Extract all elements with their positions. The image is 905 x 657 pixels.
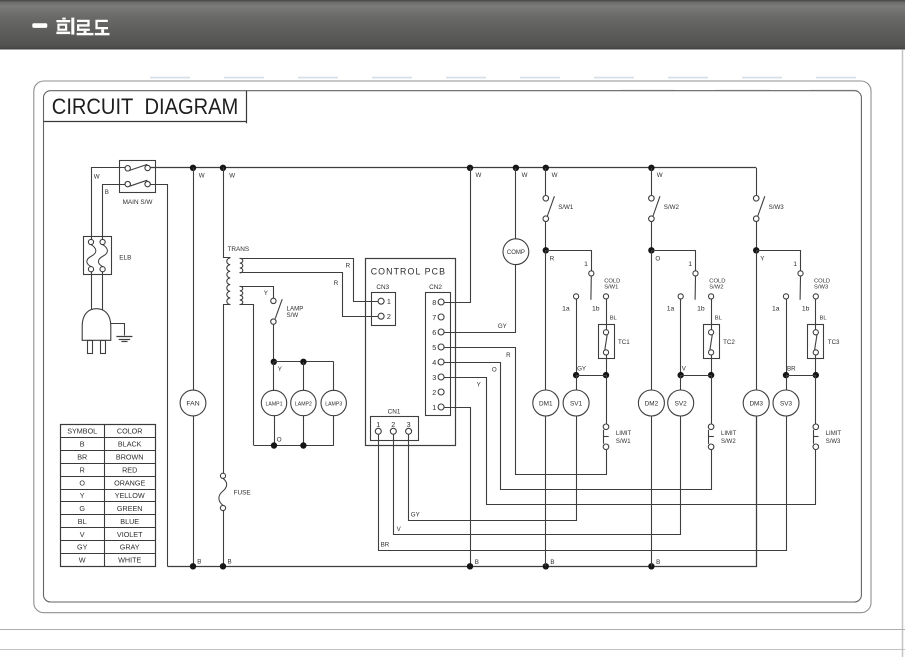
wire: node to LIMIT S/W2	[711, 375, 713, 424]
node: W at S/W2	[648, 165, 654, 171]
svg-text:BR: BR	[77, 453, 87, 462]
switch LIMIT S/W1	[603, 424, 631, 450]
wire: S/W3 to node	[756, 222, 758, 251]
connector pin CN2-7	[438, 314, 444, 320]
switch COLD S/W1 selector	[562, 261, 620, 313]
svg-text:S/W1: S/W1	[616, 439, 631, 445]
svg-text:O: O	[655, 255, 660, 262]
wire Y: secondary to lamp switch	[240, 287, 274, 299]
wire: node to cold switch common 2	[652, 251, 696, 271]
node B at fuse	[220, 563, 226, 569]
svg-text:B: B	[550, 559, 554, 566]
node: W at CN2 pin8 riser	[467, 165, 473, 171]
switch S/W3	[753, 168, 784, 222]
svg-text:Y: Y	[760, 255, 764, 262]
svg-text:4: 4	[432, 358, 436, 367]
svg-text:FAN: FAN	[186, 401, 199, 408]
svg-text:WHITE: WHITE	[118, 556, 141, 565]
wire R: CN2 pin5 to limit switch 1	[445, 348, 607, 475]
fuse FUSE	[219, 473, 251, 510]
svg-text:ELB: ELB	[119, 255, 131, 262]
svg-text:3: 3	[407, 420, 411, 429]
svg-text:CN3: CN3	[376, 284, 389, 291]
svg-text:TRANS: TRANS	[228, 246, 250, 253]
wire: DM3 to B bus	[756, 416, 758, 566]
outer rounded border frame	[34, 81, 871, 613]
svg-text:B: B	[475, 559, 479, 566]
svg-text:1b: 1b	[592, 305, 600, 312]
wire B: bottom black bus	[168, 416, 757, 567]
svg-text:S/W2: S/W2	[664, 204, 680, 211]
svg-text:RED: RED	[122, 465, 137, 474]
svg-text:R: R	[550, 255, 555, 262]
wire BR: CN1 pin1 to SV3	[379, 416, 787, 551]
faint blue artifact dashes above border	[150, 77, 858, 79]
svg-text:2: 2	[387, 312, 391, 321]
node B at DM1	[543, 563, 549, 569]
thermostat TC3	[808, 325, 841, 359]
svg-text:LIMIT: LIMIT	[616, 431, 632, 437]
svg-text:CIRCUIT DIAGRAM: CIRCUIT DIAGRAM	[52, 94, 239, 119]
transformer TRANS primary coil	[227, 258, 230, 305]
svg-text:GY: GY	[498, 323, 507, 330]
motor COMP compressor	[503, 239, 529, 265]
svg-text:LIMIT: LIMIT	[826, 431, 842, 437]
wire O: CN2 pin4 to limit switch 2	[445, 363, 712, 490]
svg-text:R: R	[346, 262, 351, 269]
svg-text:BL: BL	[78, 517, 87, 526]
thermostat TC1	[599, 325, 631, 359]
svg-text:SV3: SV3	[780, 401, 793, 408]
wire: ELB to plug	[91, 272, 93, 314]
wire: contact 1a to SV2	[680, 299, 682, 375]
svg-text:W: W	[522, 172, 528, 179]
svg-text:DM2: DM2	[645, 401, 659, 408]
header bar	[0, 0, 905, 49]
svg-text:Y: Y	[264, 290, 268, 297]
svg-text:W: W	[657, 172, 663, 179]
node V at SV2/TC2	[678, 372, 684, 378]
wire R: secondary to CN3 pin1	[240, 259, 379, 302]
svg-text:BR: BR	[787, 366, 796, 373]
node Y lamp bus	[271, 359, 277, 365]
svg-text:Y: Y	[278, 366, 282, 373]
wire: fuse to B bus	[223, 511, 225, 567]
node: W at TRANS	[220, 165, 226, 171]
wire: contact 1a to SV1	[576, 299, 578, 375]
svg-text:2: 2	[391, 420, 395, 429]
wire: lamp returns	[274, 416, 276, 446]
svg-text:O: O	[79, 478, 85, 487]
wire: node to SV2	[680, 375, 682, 390]
svg-text:GY: GY	[577, 366, 586, 373]
lamp LAMP3	[321, 390, 346, 415]
wire: node to SV1	[576, 375, 578, 390]
svg-text:LIMIT: LIMIT	[721, 431, 737, 437]
node B at CN2 pin1 drop	[467, 563, 473, 569]
svg-text:1: 1	[688, 261, 692, 268]
svg-text:GREEN: GREEN	[117, 504, 143, 513]
node: W at S/W1	[543, 165, 549, 171]
svg-text:BR: BR	[381, 542, 390, 549]
svg-text:B: B	[228, 559, 232, 566]
wire: TC1 to limit switch node	[606, 355, 608, 375]
wire: W from main switch to ELB	[92, 168, 126, 240]
node: W at FAN	[190, 165, 196, 171]
valve SV1 solenoid	[563, 390, 589, 416]
svg-text:B: B	[80, 440, 85, 449]
svg-text:GRAY: GRAY	[120, 543, 140, 552]
motor DM1 damper	[545, 250, 547, 390]
svg-text:LAMP3: LAMP3	[325, 401, 342, 407]
svg-text:W: W	[79, 556, 86, 565]
node Y below S/W3	[753, 247, 759, 253]
wire: node to LIMIT S/W3	[815, 375, 817, 424]
wire: W bus to fan	[193, 168, 195, 390]
svg-text:1a: 1a	[772, 305, 780, 312]
ground symbol	[111, 324, 133, 342]
svg-text:MAIN S/W: MAIN S/W	[123, 199, 154, 206]
svg-text:GY: GY	[77, 543, 88, 552]
svg-text:1: 1	[793, 261, 797, 268]
svg-text:S/W3: S/W3	[769, 204, 785, 211]
switch S/W2	[649, 168, 680, 222]
wire: top W bus	[150, 167, 756, 169]
svg-text:S/W1: S/W1	[604, 285, 618, 291]
motor DM2 damper	[651, 250, 653, 390]
svg-text:BLACK: BLACK	[118, 440, 142, 449]
svg-text:1: 1	[584, 261, 588, 268]
wire: S/W1 to node	[545, 222, 547, 251]
connector pin CN2-5	[438, 344, 444, 350]
svg-text:1b: 1b	[802, 305, 810, 312]
valve SV2 solenoid	[668, 390, 694, 416]
wire: TC3 to limit switch node	[815, 355, 817, 375]
svg-text:B: B	[105, 189, 109, 196]
svg-text:YELLOW: YELLOW	[115, 491, 145, 500]
svg-text:S/W2: S/W2	[721, 439, 736, 445]
wire: node to cold switch common 1	[546, 251, 592, 271]
svg-text:R: R	[80, 465, 85, 474]
connector pin CN2-6	[438, 329, 444, 335]
connector CN1	[371, 408, 419, 440]
wire: S/W2 to node	[651, 222, 653, 251]
title box CIRCUIT DIAGRAM	[44, 121, 247, 123]
svg-text:Y: Y	[477, 382, 481, 389]
svg-text:CONTROL PCB: CONTROL PCB	[371, 267, 446, 277]
node B at DM2	[648, 563, 654, 569]
svg-text:CN2: CN2	[429, 284, 442, 291]
svg-text:8: 8	[432, 298, 436, 307]
transformer TRANS secondary upper coil	[240, 258, 243, 273]
wire: DM2 to B bus	[651, 416, 653, 566]
wire: lamp feeds	[273, 362, 275, 391]
node GY at SV1/TC1	[573, 372, 579, 378]
connector pin CN2-3	[438, 374, 444, 380]
switch COLD S/W2 selector	[667, 261, 726, 313]
node B at fan	[190, 563, 196, 569]
wire: W bus to transformer primary	[224, 168, 231, 258]
connector CN3	[372, 284, 396, 326]
svg-text:5: 5	[432, 343, 436, 352]
svg-text:2: 2	[432, 388, 436, 397]
svg-text:B: B	[197, 559, 201, 566]
svg-text:BL: BL	[820, 316, 828, 322]
svg-text:W: W	[199, 173, 205, 180]
lamp LAMP1	[261, 390, 286, 415]
wire Y: CN2 pin3 to limit switch 3	[445, 378, 816, 505]
svg-text:W: W	[229, 173, 235, 180]
wire: secondary return to lamp bottoms	[240, 305, 254, 446]
svg-text:S/W1: S/W1	[558, 204, 574, 211]
svg-text:Y: Y	[80, 491, 85, 500]
svg-text:BL: BL	[715, 316, 723, 322]
wire: DM1 to B bus	[545, 416, 547, 566]
motor FAN	[180, 390, 206, 416]
control board CONTROL PCB	[366, 259, 456, 446]
switch LAMP S/W	[271, 298, 304, 324]
wire BL: contact 1b to TC3	[815, 299, 817, 330]
wire: black return from main switch to bottom bus	[151, 185, 168, 567]
wire: CN2 pin8 riser to W bus	[445, 168, 471, 303]
wire: B from main switch down	[103, 185, 126, 240]
svg-text:1b: 1b	[697, 305, 705, 312]
svg-text:W: W	[552, 172, 558, 179]
svg-text:TC1: TC1	[618, 339, 630, 346]
thermostat TC2	[704, 325, 736, 359]
wire: node to SV3	[786, 375, 788, 390]
svg-text:O: O	[492, 366, 497, 373]
switch LIMIT S/W2	[708, 424, 736, 450]
switch COLD S/W3 selector	[772, 261, 830, 313]
wire BL: contact 1b to TC2	[711, 299, 713, 330]
svg-text:1: 1	[387, 297, 391, 306]
wire O: lamp return bus	[254, 445, 334, 447]
power plug	[82, 309, 111, 354]
svg-text:W: W	[94, 174, 100, 181]
svg-text:GY: GY	[411, 512, 420, 519]
svg-text:BROWN: BROWN	[116, 453, 144, 462]
connector pin CN2-1	[438, 404, 444, 410]
page bottom divider lines	[0, 629, 905, 631]
svg-text:1: 1	[376, 420, 380, 429]
svg-text:CN1: CN1	[388, 408, 401, 415]
svg-text:DM1: DM1	[539, 401, 553, 408]
svg-text:S/W3: S/W3	[814, 285, 828, 291]
wire GY: compressor to CN2 pin6	[445, 265, 516, 333]
node O below S/W2	[648, 247, 654, 253]
svg-text:SV1: SV1	[570, 401, 583, 408]
svg-text:ORANGE: ORANGE	[114, 478, 145, 487]
node: W at COMP	[513, 165, 519, 171]
page right edge line	[902, 49, 904, 657]
svg-text:VIOLET: VIOLET	[117, 530, 143, 539]
connector pin CN2-8	[438, 299, 444, 305]
svg-text:SV2: SV2	[675, 401, 688, 408]
node R below S/W1	[543, 247, 549, 253]
svg-text:FUSE: FUSE	[234, 490, 251, 497]
lamp LAMP2	[291, 390, 316, 415]
svg-text:BLUE: BLUE	[120, 517, 139, 526]
svg-text:B: B	[656, 559, 660, 566]
switch MAIN S/W	[120, 161, 156, 206]
wire BL: contact 1b to TC1	[606, 299, 608, 330]
svg-text:W: W	[476, 172, 482, 179]
wire V: CN1 pin2 to SV2	[394, 416, 681, 535]
svg-text:1a: 1a	[562, 305, 570, 312]
wire: W bus to compressor	[515, 168, 517, 239]
wire GY: CN1 pin3 to SV1	[409, 416, 577, 521]
svg-text:S/W: S/W	[287, 312, 299, 319]
connector CN2	[426, 284, 451, 416]
svg-text:LAMP1: LAMP1	[265, 401, 282, 407]
svg-text:R: R	[506, 352, 511, 359]
svg-text:BL: BL	[610, 316, 618, 322]
wire: node to LIMIT S/W1	[606, 375, 608, 424]
svg-text:1: 1	[432, 403, 436, 412]
connector pin CN2-4	[438, 359, 444, 365]
wire: fan to B bus	[193, 416, 195, 566]
wire B: CN2 pin1 to B bus	[445, 408, 471, 567]
svg-text:1a: 1a	[667, 305, 675, 312]
svg-text:DM3: DM3	[749, 401, 763, 408]
svg-text:TC3: TC3	[828, 339, 840, 346]
svg-text:7: 7	[432, 313, 436, 322]
wire: contact 1a to SV3	[786, 299, 788, 375]
svg-text:COLOR: COLOR	[117, 427, 143, 436]
svg-text:TC2: TC2	[723, 339, 735, 346]
svg-text:R: R	[334, 280, 339, 287]
header title 회로도 (hangul drawn as shapes)	[56, 18, 109, 36]
svg-text:SYMBOL: SYMBOL	[67, 427, 97, 436]
svg-text:S/W3: S/W3	[826, 439, 841, 445]
transformer TRANS secondary lower coil	[240, 286, 243, 304]
motor DM3 damper	[756, 250, 758, 390]
switch LIMIT S/W3	[813, 424, 841, 450]
svg-text:O: O	[277, 437, 282, 444]
inner rounded border frame	[44, 91, 862, 602]
wire: TC2 to limit switch node	[711, 355, 713, 375]
svg-text:LAMP2: LAMP2	[295, 401, 312, 407]
node BR at SV3/TC3	[783, 372, 789, 378]
svg-text:COMP: COMP	[507, 250, 525, 256]
symbol color table	[60, 425, 155, 567]
wire: node to cold switch common 3	[757, 251, 801, 271]
wire R: secondary to CN3 pin2	[240, 273, 379, 317]
wire: primary return through fuse	[224, 305, 231, 474]
svg-text:G: G	[79, 504, 85, 513]
valve SV3 solenoid	[773, 390, 799, 416]
svg-text:S/W2: S/W2	[709, 285, 723, 291]
switch S/W1	[543, 168, 574, 222]
header dash icon	[32, 23, 47, 28]
wire: lamp switch to lamp bus	[273, 324, 275, 362]
breaker ELB	[84, 237, 132, 275]
svg-text:V: V	[80, 530, 85, 539]
svg-text:6: 6	[432, 328, 436, 337]
connector pin CN2-2	[438, 389, 444, 395]
svg-text:3: 3	[432, 373, 436, 382]
